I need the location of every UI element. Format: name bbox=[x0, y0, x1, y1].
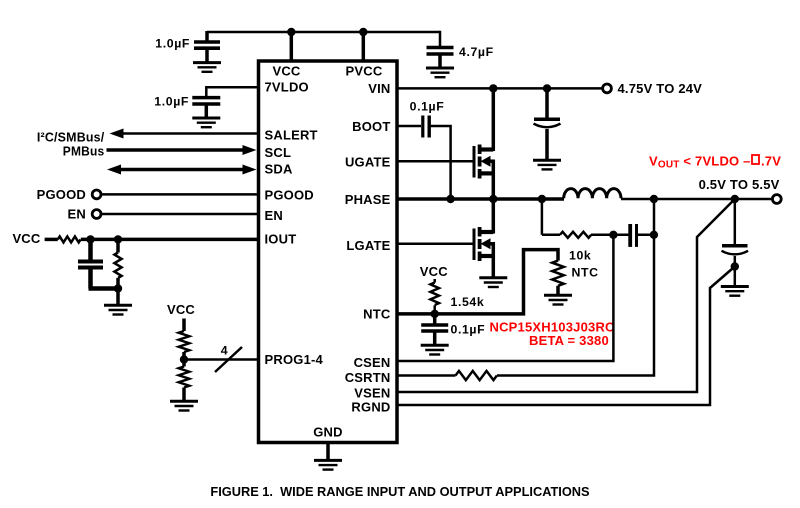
capacitor C8 (output) bbox=[722, 199, 749, 285]
wire 7VLDO bbox=[206, 87, 258, 97]
wire R5 to C7 bbox=[591, 234, 629, 237]
svg-text:I²C/SMBus/: I²C/SMBus/ bbox=[37, 130, 105, 145]
capacitor C7 (sense) bbox=[630, 224, 636, 247]
svg-text:EN: EN bbox=[68, 207, 86, 222]
wire BOOT bbox=[397, 125, 421, 128]
ground (C9) bbox=[421, 345, 449, 354]
ground (PROG divider) bbox=[170, 401, 198, 410]
resistor R1 (IOUT) bbox=[58, 236, 81, 242]
resistor R6 (CSRTN) bbox=[456, 371, 497, 380]
capacitor C2 4.7uF bbox=[427, 32, 494, 67]
terminal VOUT circle bbox=[772, 195, 781, 204]
capacitor C4 (IOUT) bbox=[78, 239, 103, 288]
svg-text:PVCC: PVCC bbox=[346, 64, 383, 79]
wire SDA arrow (both) bbox=[107, 165, 257, 175]
node inductor out bbox=[650, 195, 658, 203]
label VOUT < 7VLDO -1.7V (red) bbox=[649, 153, 781, 170]
capacitor C9 0.1uF (NTC) bbox=[421, 314, 485, 344]
node PROG tap bbox=[180, 355, 188, 363]
svg-text:0.1µF: 0.1µF bbox=[451, 323, 486, 337]
svg-text:LGATE: LGATE bbox=[346, 238, 390, 253]
wire phase to output bbox=[621, 198, 772, 201]
svg-text:VIN: VIN bbox=[368, 81, 390, 96]
terminal EN circle bbox=[92, 210, 101, 219]
wire SCL arrow (right) bbox=[107, 145, 257, 155]
label I2C/SMBus/PMBus bbox=[37, 130, 105, 159]
wire CSRTN right bbox=[497, 199, 654, 376]
svg-text:SALERT: SALERT bbox=[265, 127, 318, 142]
resistor R8 1.54k bbox=[430, 283, 439, 305]
wire PHASE bbox=[397, 197, 564, 201]
wire C4/R2 bottom join bbox=[89, 286, 119, 291]
node phase/sense bbox=[538, 195, 546, 203]
wire to ground bbox=[116, 289, 120, 305]
svg-text:VCC: VCC bbox=[12, 231, 40, 246]
node output cap / rgnd bbox=[731, 262, 739, 270]
node PVCC pin drop bbox=[359, 28, 367, 36]
capacitor C3 1.0uF (7VLDO) bbox=[154, 95, 220, 118]
wire top VCC rail bbox=[207, 31, 440, 34]
wire CSRTN left bbox=[397, 374, 456, 377]
svg-text:1.54k: 1.54k bbox=[451, 295, 485, 309]
svg-text:VCC: VCC bbox=[272, 64, 300, 79]
svg-text:SCL: SCL bbox=[265, 145, 292, 160]
wire R3 to node bbox=[182, 352, 186, 360]
svg-text:.7V: .7V bbox=[761, 153, 781, 168]
svg-text:4: 4 bbox=[221, 344, 228, 358]
wire sense tap down bbox=[541, 199, 544, 235]
wire VCC stub bbox=[433, 279, 436, 283]
wire VIN bbox=[397, 87, 602, 90]
svg-text:NTC: NTC bbox=[572, 266, 599, 280]
terminal PGOOD circle bbox=[92, 190, 101, 199]
wire R7 to ground bbox=[556, 286, 560, 294]
wire VCC stub bbox=[182, 319, 186, 332]
node VCC pin drop bbox=[287, 28, 295, 36]
svg-text:4.7µF: 4.7µF bbox=[459, 45, 494, 59]
svg-text:UGATE: UGATE bbox=[345, 154, 391, 169]
wire C7 to out node bbox=[636, 234, 654, 237]
resistor R2 (IOUT) bbox=[114, 239, 121, 288]
node VIN/Q1 drain bbox=[489, 84, 497, 92]
wire to sense resistor bbox=[542, 234, 560, 237]
node NTC/R8 bbox=[431, 310, 439, 318]
svg-text:RGND: RGND bbox=[351, 400, 390, 415]
wire PVCC drop bbox=[362, 32, 366, 61]
svg-text:10k: 10k bbox=[569, 249, 591, 263]
svg-text:CSRTN: CSRTN bbox=[345, 370, 391, 385]
resistor R4 (PROG lower) bbox=[179, 360, 190, 401]
node IOUT resistor tap bbox=[114, 235, 122, 243]
transistor Q2 (lower MOSFET) bbox=[397, 199, 493, 277]
svg-text:PGOOD: PGOOD bbox=[265, 188, 314, 203]
terminal VIN circle bbox=[603, 84, 612, 93]
svg-text:VCC: VCC bbox=[167, 302, 195, 317]
resistor R3 (PROG upper) bbox=[179, 331, 190, 352]
svg-text:EN: EN bbox=[265, 208, 283, 223]
wire GND pin to ground bbox=[326, 443, 330, 460]
wire CSEN bbox=[397, 235, 613, 361]
node R2 bottom bbox=[114, 284, 122, 292]
svg-text:0.1µF: 0.1µF bbox=[410, 100, 445, 114]
svg-text:VCC: VCC bbox=[420, 264, 448, 279]
wire SALERT arrow (left) bbox=[110, 129, 259, 139]
svg-text:7VLDO: 7VLDO bbox=[265, 79, 309, 94]
ground (C6) bbox=[533, 160, 561, 169]
IC U1 body bbox=[259, 61, 398, 443]
svg-text:CSEN: CSEN bbox=[354, 355, 391, 370]
svg-text:SDA: SDA bbox=[265, 161, 293, 176]
svg-text:NTC: NTC bbox=[363, 307, 391, 322]
resistor R7 10k NTC bbox=[552, 261, 564, 286]
svg-text:BOOT: BOOT bbox=[352, 119, 390, 134]
node C7 right bbox=[650, 231, 658, 239]
ground (C2) bbox=[426, 68, 454, 77]
ground (IOUT net) bbox=[104, 305, 132, 314]
node output cap tap bbox=[731, 195, 739, 203]
svg-text:VSEN: VSEN bbox=[354, 386, 390, 401]
node IOUT cap tap bbox=[86, 235, 94, 243]
svg-text:BETA = 3380: BETA = 3380 bbox=[529, 333, 609, 348]
wire IOUT bbox=[81, 238, 258, 242]
resistor R5 (DCR sense) bbox=[560, 232, 591, 238]
svg-text:FIGURE 1. WIDE RANGE INPUT AN: FIGURE 1. WIDE RANGE INPUT AND OUTPUT AP… bbox=[210, 484, 590, 499]
node phase/fets bbox=[489, 195, 497, 203]
node CSEN tap bbox=[609, 231, 617, 239]
wire R8 to NTC line bbox=[433, 305, 436, 314]
svg-text:IOUT: IOUT bbox=[265, 231, 297, 246]
svg-text:0.5V TO 5.5V: 0.5V TO 5.5V bbox=[699, 177, 780, 192]
svg-text:4.75V TO 24V: 4.75V TO 24V bbox=[618, 81, 703, 96]
capacitor C6 (VIN bulk, polarized) bbox=[534, 88, 561, 159]
capacitor C5 0.1uF (BOOT) bbox=[410, 100, 445, 138]
wire VCC to resistor bbox=[45, 238, 58, 242]
ground (IC GND) bbox=[314, 460, 342, 469]
svg-text:1.0µF: 1.0µF bbox=[155, 37, 190, 51]
wire VSEN bbox=[397, 199, 735, 392]
svg-text:1.0µF: 1.0µF bbox=[154, 95, 189, 109]
svg-text:PHASE: PHASE bbox=[345, 192, 391, 207]
inductor L1 bbox=[564, 189, 621, 199]
ground (C3) bbox=[192, 118, 220, 127]
capacitor C1 1.0uF (VCC decoupling) bbox=[155, 31, 220, 62]
svg-text:PMBus: PMBus bbox=[63, 144, 105, 159]
wire PROG1-4 bbox=[184, 358, 258, 361]
wire PGOOD bbox=[101, 193, 258, 196]
ground (Q2 source) bbox=[479, 278, 507, 287]
wire RGND bbox=[397, 267, 735, 406]
node phase/boot bbox=[446, 195, 454, 203]
svg-text:GND: GND bbox=[313, 425, 343, 440]
svg-text:PGOOD: PGOOD bbox=[37, 187, 86, 202]
ground (C1) bbox=[193, 63, 221, 72]
transistor Q1 (upper MOSFET) bbox=[397, 88, 493, 199]
wire NTC pin bbox=[397, 250, 558, 314]
svg-text:PROG1-4: PROG1-4 bbox=[265, 352, 324, 367]
wire VCC drop bbox=[290, 32, 294, 61]
wire BOOT cap to phase bbox=[429, 126, 450, 199]
ground (R7) bbox=[544, 295, 572, 304]
bus slash 4 bbox=[215, 344, 242, 372]
node VIN input cap bbox=[543, 84, 551, 92]
wire EN bbox=[101, 213, 258, 216]
ground (C8) bbox=[721, 287, 749, 296]
